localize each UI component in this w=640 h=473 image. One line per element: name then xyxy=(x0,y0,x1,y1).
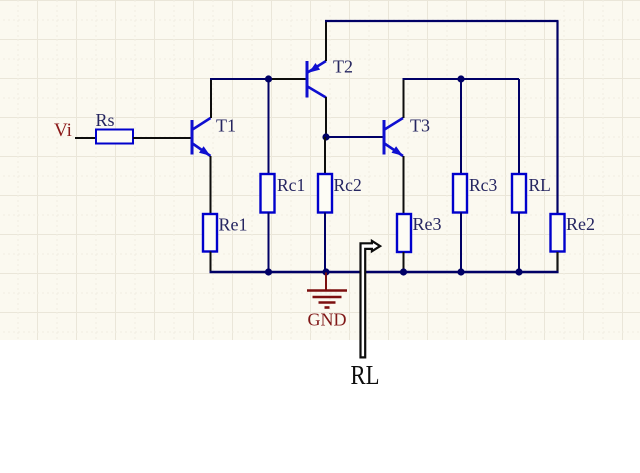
junction dot B xyxy=(322,133,329,140)
svg-text:Re3: Re3 xyxy=(413,214,442,234)
transistor T3 xyxy=(384,116,430,157)
wire junction down to Rc1 xyxy=(268,79,270,174)
wire Rs to T1 base xyxy=(133,137,191,139)
junction dot rail 2 xyxy=(322,268,329,275)
svg-text:RL: RL xyxy=(351,360,380,390)
wire RL to rail xyxy=(518,213,520,273)
resistor Re1 xyxy=(203,214,248,252)
wire Rc2 to rail xyxy=(324,213,326,273)
wire Vi to Rs xyxy=(75,137,96,139)
svg-text:Vi: Vi xyxy=(54,120,72,141)
transistor T1 xyxy=(192,116,236,157)
wire T3 collector up xyxy=(403,79,405,118)
resistor Rs xyxy=(96,110,134,144)
resistor Re3 xyxy=(397,214,442,252)
wire Rc3 to rail xyxy=(460,213,462,273)
wire T3 top rail xyxy=(403,78,520,80)
wire top rail horizontal xyxy=(325,20,559,22)
resistor Rc2 xyxy=(318,174,362,213)
wire T2 emitter up to top rail xyxy=(325,21,327,61)
resistor RL xyxy=(512,174,551,213)
svg-text:Rc3: Rc3 xyxy=(469,175,497,195)
wire T2 collector down xyxy=(325,97,327,137)
junction dot rail 3 xyxy=(400,268,407,275)
ground GND xyxy=(307,273,347,330)
junction dot rail 5 xyxy=(515,268,522,275)
wire junction to T3 base xyxy=(326,136,383,138)
svg-text:T1: T1 xyxy=(216,116,236,136)
svg-text:Rc1: Rc1 xyxy=(277,175,305,195)
wire T1 collector up xyxy=(210,79,212,118)
transistor T2 xyxy=(307,57,353,98)
junction dot rail 4 xyxy=(457,268,464,275)
bottom ground rail xyxy=(210,271,559,273)
wire Rc1 to rail xyxy=(268,213,270,273)
wire Re3 to rail xyxy=(403,252,405,272)
annotation arrow RL xyxy=(361,241,381,358)
resistor Rc3 xyxy=(453,174,497,213)
wire T3 emitter down to Re3 xyxy=(403,156,405,214)
svg-text:Rc2: Rc2 xyxy=(334,175,362,195)
wire top rail down right side xyxy=(556,21,558,214)
wire collector rail to junction xyxy=(210,78,269,80)
wire T1 emitter down to Re1 xyxy=(210,156,212,214)
svg-text:T3: T3 xyxy=(410,116,430,136)
junction dot rail 1 xyxy=(265,268,272,275)
svg-text:Re2: Re2 xyxy=(566,214,595,234)
junction dot A xyxy=(265,75,272,82)
wire junction down to Rc2 xyxy=(324,137,326,174)
svg-text:Re1: Re1 xyxy=(219,215,248,235)
svg-text:Rs: Rs xyxy=(96,110,115,130)
wire Re2 to rail xyxy=(556,252,558,273)
svg-text:RL: RL xyxy=(529,175,551,195)
svg-text:GND: GND xyxy=(308,310,347,330)
wire Re1 to rail xyxy=(210,252,212,274)
wire junction down to Rc3 xyxy=(460,79,462,174)
wire junction to T2 base xyxy=(269,78,307,80)
svg-text:T2: T2 xyxy=(333,57,353,77)
junction dot C xyxy=(457,75,464,82)
resistor Rc1 xyxy=(261,174,306,213)
wire down to RL xyxy=(518,79,520,174)
resistor Re2 xyxy=(551,214,596,252)
